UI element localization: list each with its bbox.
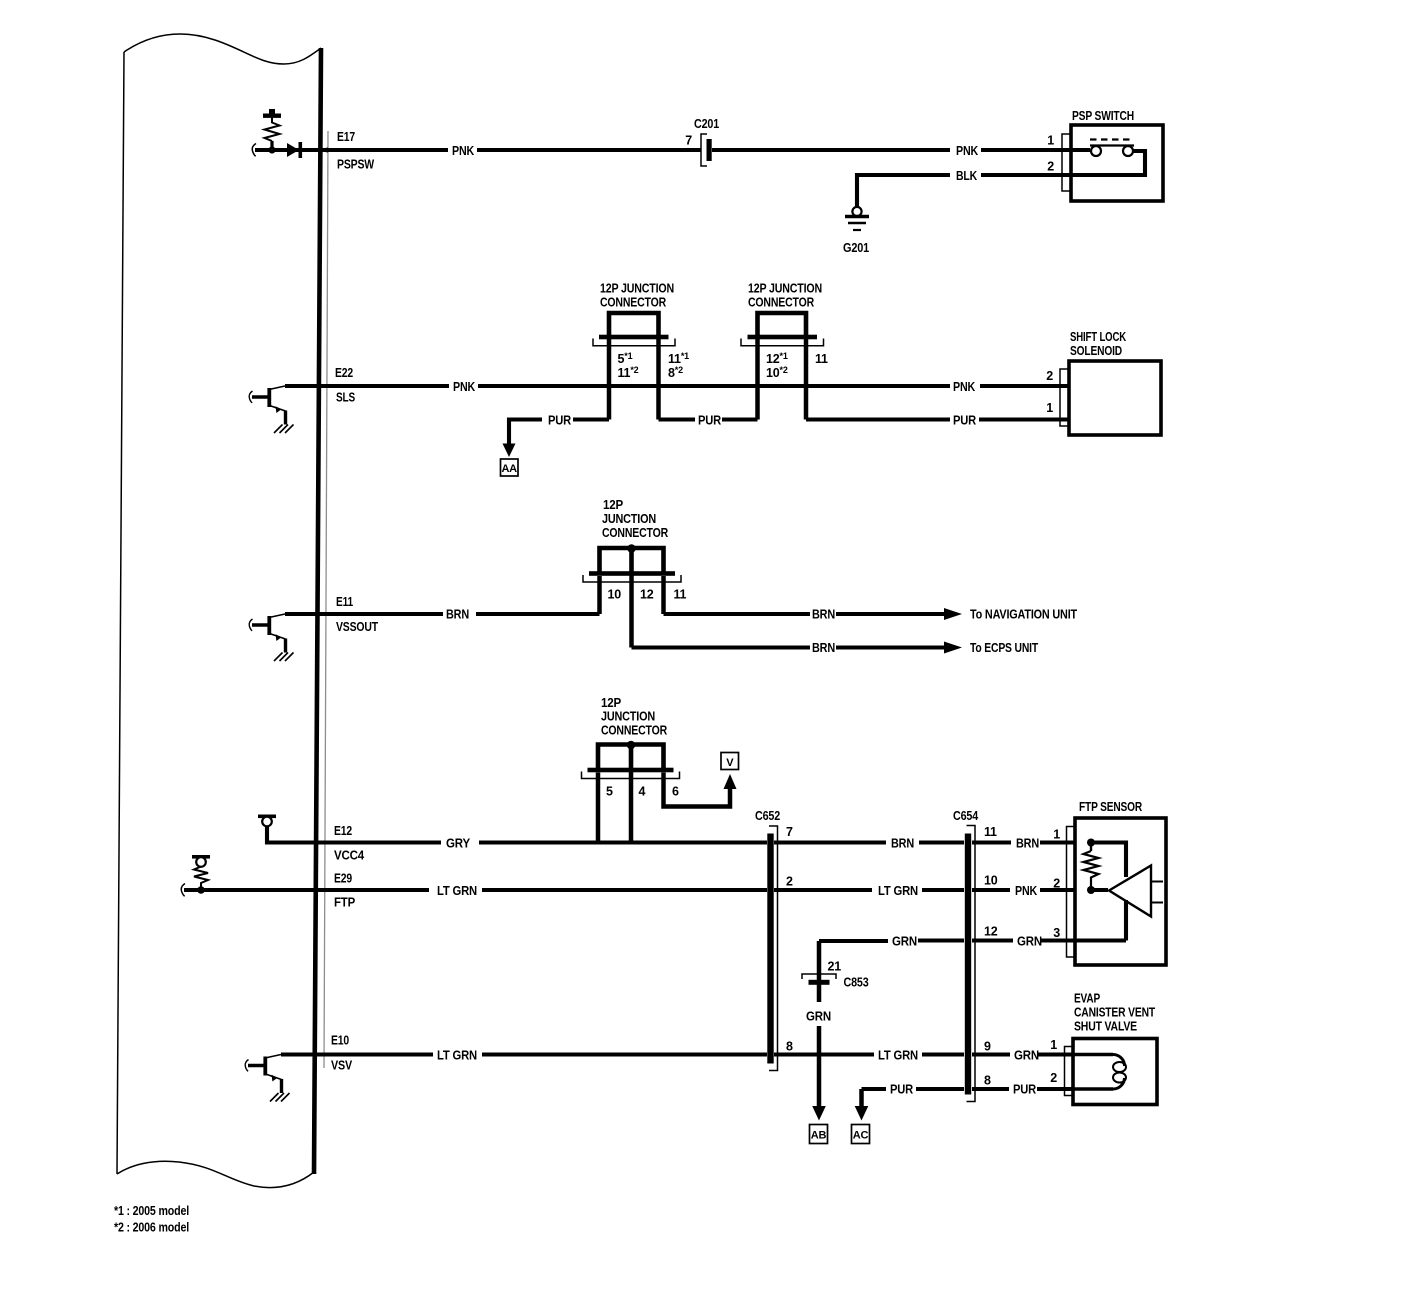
svg-text:C654: C654	[953, 809, 978, 823]
svg-text:CONNECTOR: CONNECTOR	[748, 296, 814, 310]
svg-text:12P: 12P	[603, 498, 623, 512]
svg-text:C853: C853	[844, 976, 869, 990]
svg-text:10: 10	[608, 588, 622, 602]
svg-text:SHIFT LOCK: SHIFT LOCK	[1070, 330, 1126, 344]
svg-text:JUNCTION: JUNCTION	[602, 512, 656, 526]
svg-text:2: 2	[1053, 877, 1060, 891]
svg-text:SHUT VALVE: SHUT VALVE	[1074, 1020, 1137, 1034]
svg-text:CONNECTOR: CONNECTOR	[600, 296, 666, 310]
svg-text:12: 12	[984, 925, 998, 939]
svg-text:PUR: PUR	[953, 414, 976, 428]
svg-text:PNK: PNK	[1015, 884, 1037, 898]
svg-text:CANISTER VENT: CANISTER VENT	[1074, 1006, 1155, 1020]
svg-text:1: 1	[1050, 1038, 1057, 1052]
svg-text:G201: G201	[843, 241, 869, 255]
svg-text:BRN: BRN	[1016, 837, 1039, 851]
svg-text:SOLENOID: SOLENOID	[1070, 344, 1122, 358]
svg-text:12P: 12P	[601, 696, 621, 710]
svg-text:E29: E29	[334, 872, 352, 886]
svg-text:LT GRN: LT GRN	[878, 884, 918, 898]
svg-text:1: 1	[1046, 401, 1053, 415]
svg-text:JUNCTION: JUNCTION	[601, 710, 655, 724]
svg-text:8: 8	[786, 1040, 793, 1054]
svg-text:C201: C201	[694, 117, 719, 131]
svg-text:2: 2	[1047, 160, 1054, 174]
svg-text:PSP SWITCH: PSP SWITCH	[1072, 109, 1134, 123]
svg-text:PNK: PNK	[956, 144, 978, 158]
svg-text:VCC4: VCC4	[334, 849, 364, 863]
svg-text:8: 8	[984, 1074, 991, 1088]
svg-text:E17: E17	[337, 130, 355, 144]
svg-text:PUR: PUR	[890, 1083, 913, 1097]
svg-text:EVAP: EVAP	[1074, 992, 1100, 1006]
svg-text:To NAVIGATION UNIT: To NAVIGATION UNIT	[970, 608, 1077, 622]
svg-text:GRN: GRN	[892, 935, 917, 949]
svg-text:11: 11	[815, 352, 828, 366]
svg-text:GRN: GRN	[1014, 1049, 1039, 1063]
svg-text:9: 9	[984, 1040, 991, 1054]
svg-text:CONNECTOR: CONNECTOR	[602, 526, 668, 540]
svg-text:GRY: GRY	[446, 837, 471, 851]
svg-text:E22: E22	[335, 366, 353, 380]
svg-text:GRN: GRN	[1017, 935, 1042, 949]
svg-text:AA: AA	[501, 463, 517, 475]
svg-text:C652: C652	[755, 809, 780, 823]
svg-text:PNK: PNK	[953, 380, 975, 394]
svg-text:SLS: SLS	[336, 391, 355, 405]
svg-text:To ECPS UNIT: To ECPS UNIT	[970, 641, 1038, 655]
svg-text:2: 2	[1046, 369, 1053, 383]
svg-text:12: 12	[640, 588, 654, 602]
svg-text:11: 11	[984, 825, 997, 839]
svg-text:VSV: VSV	[331, 1059, 353, 1073]
svg-text:1: 1	[1047, 134, 1054, 148]
svg-text:21: 21	[828, 960, 842, 974]
svg-text:E10: E10	[331, 1034, 349, 1048]
svg-text:VSSOUT: VSSOUT	[336, 620, 378, 634]
svg-text:BRN: BRN	[891, 837, 914, 851]
svg-text:PUR: PUR	[698, 414, 721, 428]
svg-text:LT GRN: LT GRN	[437, 884, 477, 898]
svg-text:12P JUNCTION: 12P JUNCTION	[748, 282, 822, 296]
svg-text:*2 : 2006 model: *2 : 2006 model	[114, 1221, 189, 1235]
svg-text:7: 7	[786, 825, 793, 839]
svg-text:V: V	[726, 757, 734, 769]
svg-text:PNK: PNK	[452, 144, 474, 158]
svg-text:11: 11	[674, 588, 687, 602]
svg-text:1: 1	[1053, 828, 1060, 842]
svg-text:PSPSW: PSPSW	[337, 158, 374, 172]
svg-text:AC: AC	[853, 1130, 869, 1142]
svg-text:BLK: BLK	[956, 169, 977, 183]
svg-text:PUR: PUR	[1013, 1083, 1036, 1097]
svg-text:4: 4	[639, 785, 646, 799]
svg-text:LT GRN: LT GRN	[878, 1049, 918, 1063]
svg-text:3: 3	[1053, 926, 1060, 940]
svg-text:LT GRN: LT GRN	[437, 1049, 477, 1063]
svg-text:PUR: PUR	[548, 414, 571, 428]
svg-text:AB: AB	[811, 1130, 827, 1142]
svg-text:*1 : 2005 model: *1 : 2005 model	[114, 1204, 189, 1218]
svg-text:BRN: BRN	[812, 608, 835, 622]
svg-text:7: 7	[685, 134, 692, 148]
svg-text:BRN: BRN	[446, 608, 469, 622]
svg-text:E12: E12	[334, 824, 352, 838]
svg-text:5: 5	[606, 785, 613, 799]
svg-text:12P JUNCTION: 12P JUNCTION	[600, 282, 674, 296]
svg-text:CONNECTOR: CONNECTOR	[601, 724, 667, 738]
svg-text:FTP: FTP	[334, 896, 355, 910]
svg-text:2: 2	[786, 875, 793, 889]
svg-text:6: 6	[672, 785, 679, 799]
svg-text:BRN: BRN	[812, 641, 835, 655]
svg-text:FTP SENSOR: FTP SENSOR	[1079, 800, 1142, 814]
svg-text:PNK: PNK	[453, 380, 475, 394]
svg-text:2: 2	[1050, 1071, 1057, 1085]
svg-text:E11: E11	[336, 595, 353, 609]
svg-text:GRN: GRN	[806, 1010, 831, 1024]
svg-text:10: 10	[984, 874, 998, 888]
